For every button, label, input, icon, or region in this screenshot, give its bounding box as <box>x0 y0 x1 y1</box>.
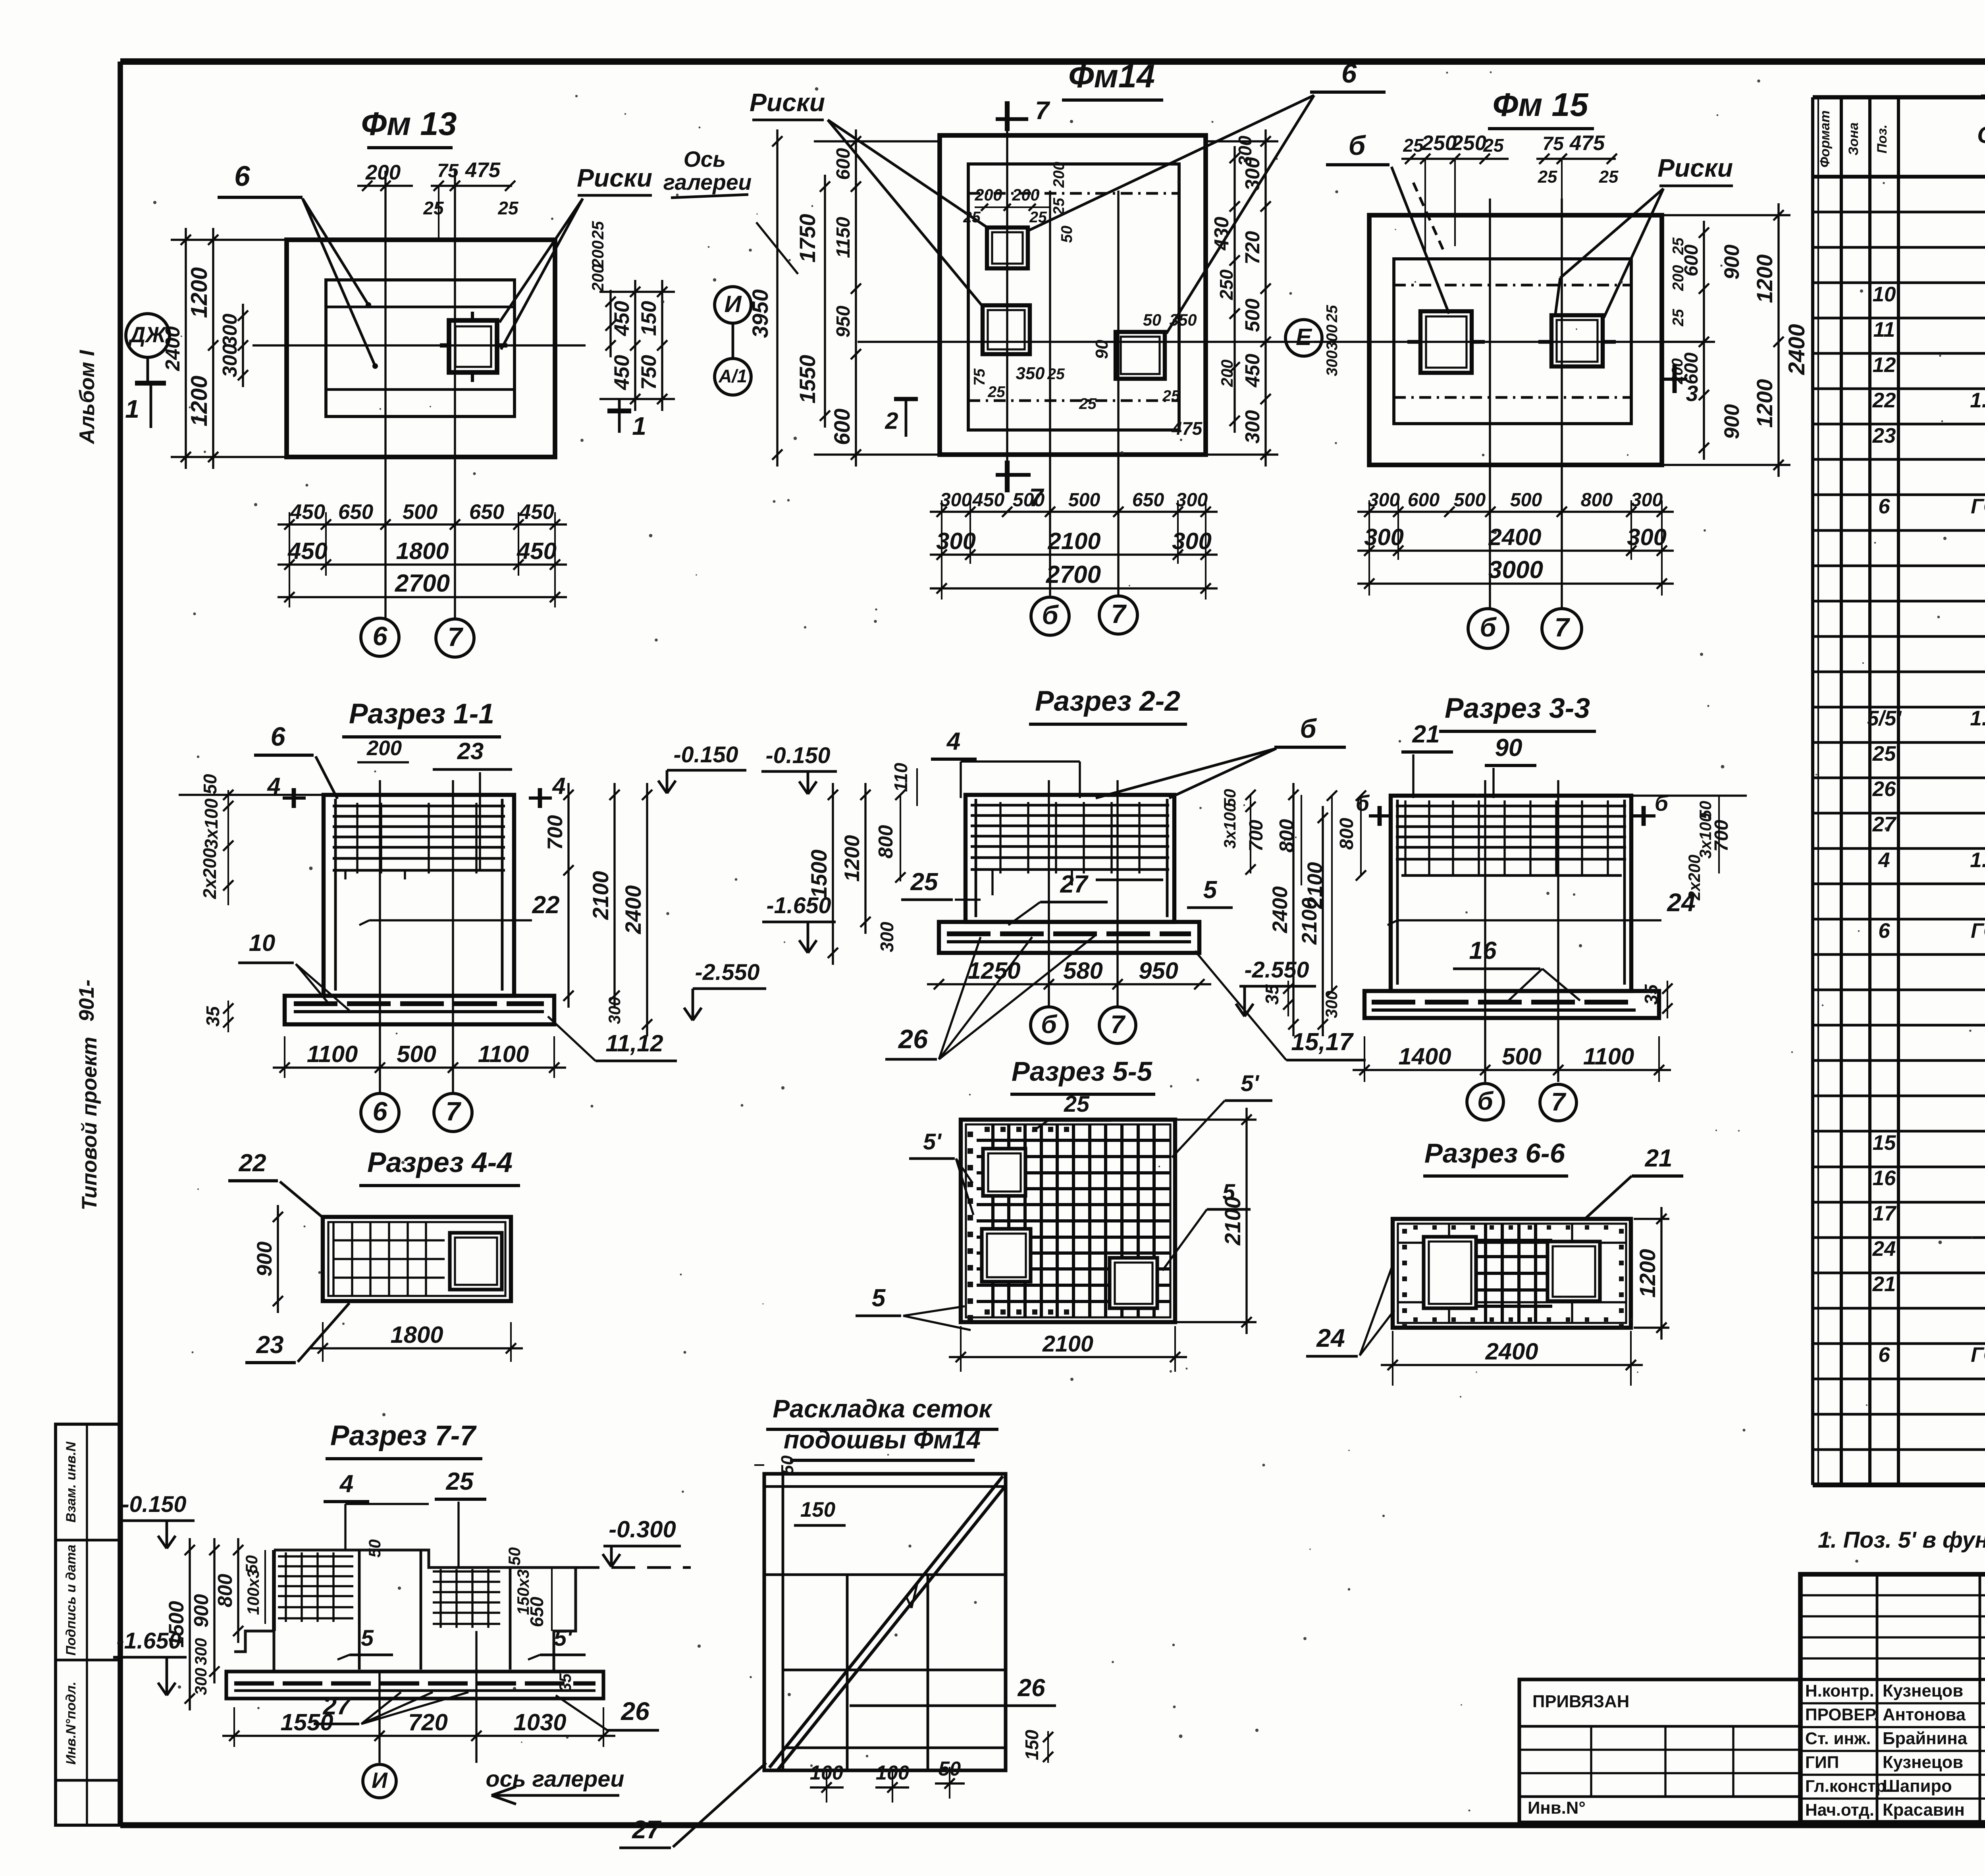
svg-text:ГИП: ГИП <box>1805 1753 1839 1772</box>
svg-text:Зона: Зона <box>1846 122 1861 155</box>
svg-text:25: 25 <box>1324 305 1341 323</box>
svg-text:300: 300 <box>1324 350 1341 376</box>
svg-text:200: 200 <box>1012 186 1039 204</box>
svg-text:900: 900 <box>1720 245 1744 280</box>
svg-text:подошвы Фм14: подошвы Фм14 <box>784 1425 981 1454</box>
svg-text:ДЖ: ДЖ <box>128 322 167 347</box>
svg-text:1500: 1500 <box>807 849 831 898</box>
svg-text:25: 25 <box>423 198 444 218</box>
svg-text:Фм 15: Фм 15 <box>1493 86 1589 123</box>
svg-text:200: 200 <box>1050 162 1068 188</box>
svg-text:1200: 1200 <box>1752 254 1777 303</box>
svg-text:Риски: Риски <box>577 164 652 192</box>
svg-text:Поз.: Поз. <box>1875 124 1890 153</box>
svg-text:500: 500 <box>1241 299 1264 332</box>
svg-text:1550: 1550 <box>795 355 820 403</box>
svg-text:ГОСТ 24379.1-80: ГОСТ 24379.1-80 <box>1971 1343 1985 1367</box>
svg-text:450: 450 <box>610 301 634 336</box>
svg-text:720: 720 <box>408 1709 448 1735</box>
svg-text:800: 800 <box>874 825 897 858</box>
svg-text:4: 4 <box>946 728 961 755</box>
svg-text:5/5': 5/5' <box>1867 707 1902 730</box>
svg-text:2100: 2100 <box>1042 1331 1093 1357</box>
svg-text:700: 700 <box>543 815 567 850</box>
svg-text:1030: 1030 <box>513 1709 566 1735</box>
svg-text:Альбом I: Альбом I <box>75 350 99 445</box>
svg-text:5': 5' <box>923 1129 942 1155</box>
svg-text:16: 16 <box>1873 1166 1896 1190</box>
svg-text:7: 7 <box>1554 613 1570 642</box>
svg-text:700: 700 <box>1711 820 1732 852</box>
svg-text:50: 50 <box>1058 226 1075 243</box>
svg-text:6: 6 <box>1878 495 1890 518</box>
svg-text:6: 6 <box>372 622 387 651</box>
svg-text:300: 300 <box>1324 324 1341 350</box>
svg-text:5: 5 <box>872 1284 886 1312</box>
svg-text:500: 500 <box>1013 489 1045 511</box>
svg-text:ось галереи: ось галереи <box>486 1766 624 1792</box>
svg-text:300: 300 <box>192 1668 210 1695</box>
svg-text:150: 150 <box>1021 1729 1042 1760</box>
svg-text:25: 25 <box>1050 197 1068 216</box>
svg-text:4: 4 <box>552 773 565 799</box>
svg-text:720: 720 <box>1241 231 1264 264</box>
svg-text:И: И <box>372 1768 388 1793</box>
svg-text:7: 7 <box>447 623 463 652</box>
svg-text:Н.контр.: Н.контр. <box>1805 1681 1874 1701</box>
svg-text:10: 10 <box>1873 283 1896 306</box>
svg-text:6: 6 <box>1341 58 1357 89</box>
svg-text:Разрез 6-6: Разрез 6-6 <box>1424 1138 1565 1168</box>
svg-text:б: б <box>1349 130 1366 161</box>
svg-text:475: 475 <box>1172 418 1203 439</box>
svg-text:200: 200 <box>589 240 607 268</box>
svg-text:10: 10 <box>249 929 276 956</box>
svg-text:475: 475 <box>465 158 501 182</box>
svg-text:500: 500 <box>1068 489 1100 511</box>
svg-text:25: 25 <box>1538 167 1557 187</box>
svg-text:900: 900 <box>190 1594 212 1627</box>
svg-text:600: 600 <box>833 148 854 180</box>
svg-text:2x200: 2x200 <box>1685 854 1704 900</box>
svg-text:25: 25 <box>1670 237 1687 255</box>
svg-text:Взам. инв.N: Взам. инв.N <box>64 1441 79 1523</box>
svg-text:450: 450 <box>516 538 557 564</box>
svg-text:11: 11 <box>1873 318 1895 341</box>
svg-text:25: 25 <box>963 209 981 226</box>
svg-text:Фм 13: Фм 13 <box>361 105 457 142</box>
svg-text:4: 4 <box>339 1470 354 1498</box>
svg-text:4: 4 <box>1878 848 1890 872</box>
svg-text:650: 650 <box>338 500 373 524</box>
svg-text:2400: 2400 <box>1485 1338 1538 1365</box>
svg-text:Раскладка сеток: Раскладка сеток <box>773 1394 993 1423</box>
svg-text:7: 7 <box>1551 1087 1567 1116</box>
svg-text:3950: 3950 <box>748 289 773 338</box>
svg-text:25: 25 <box>1064 1091 1090 1117</box>
svg-text:Обозначение: Обозначение <box>1977 121 1985 148</box>
svg-text:б: б <box>1480 613 1497 642</box>
svg-text:26: 26 <box>621 1697 650 1726</box>
svg-text:Разрез 7-7: Разрез 7-7 <box>330 1420 477 1452</box>
svg-text:А/1: А/1 <box>718 366 747 386</box>
svg-text:Антонова: Антонова <box>1883 1705 1966 1724</box>
svg-text:25: 25 <box>910 868 939 896</box>
svg-text:ГОСТ 24379.1-80: ГОСТ 24379.1-80 <box>1971 919 1985 943</box>
svg-text:1200: 1200 <box>1752 379 1777 428</box>
svg-text:1. Поз. 5' в фундаменте Фм 14: 1. Поз. 5' в фундаменте Фм 14 укоротить … <box>1818 1527 1985 1553</box>
svg-text:Разрез 4-4: Разрез 4-4 <box>367 1147 513 1178</box>
svg-text:25: 25 <box>497 198 519 218</box>
svg-text:1.412-1/77 Вып.3: 1.412-1/77 Вып.3 <box>1970 389 1985 412</box>
svg-text:300: 300 <box>1368 489 1400 511</box>
svg-text:Фм14: Фм14 <box>1068 58 1155 94</box>
svg-text:6: 6 <box>372 1097 387 1126</box>
svg-text:26: 26 <box>1017 1674 1045 1702</box>
svg-text:ПРИВЯЗАН: ПРИВЯЗАН <box>1532 1692 1629 1711</box>
svg-text:7: 7 <box>1035 96 1050 125</box>
svg-text:1200: 1200 <box>187 267 212 318</box>
svg-text:1100: 1100 <box>478 1041 529 1067</box>
svg-text:-0.150: -0.150 <box>765 743 830 768</box>
svg-text:б: б <box>1042 601 1059 630</box>
svg-text:12: 12 <box>1873 353 1896 377</box>
svg-text:450: 450 <box>972 489 1005 511</box>
svg-text:2700: 2700 <box>395 570 450 597</box>
svg-text:50: 50 <box>778 1456 797 1475</box>
svg-text:Подпись и дата: Подпись и дата <box>64 1544 79 1656</box>
svg-text:300: 300 <box>1241 410 1264 443</box>
svg-text:1100: 1100 <box>1583 1043 1634 1070</box>
svg-text:1800: 1800 <box>390 1321 443 1348</box>
svg-text:200: 200 <box>365 161 401 184</box>
svg-text:1: 1 <box>125 395 139 423</box>
svg-text:Ст. инж.: Ст. инж. <box>1805 1729 1871 1748</box>
svg-text:16: 16 <box>1469 937 1497 964</box>
svg-text:110: 110 <box>890 763 911 792</box>
svg-text:27: 27 <box>322 1693 351 1720</box>
svg-text:950: 950 <box>833 306 854 338</box>
svg-text:1200: 1200 <box>840 835 864 882</box>
svg-text:7: 7 <box>1111 600 1127 629</box>
svg-text:35: 35 <box>1641 984 1661 1005</box>
svg-text:300: 300 <box>1176 489 1208 511</box>
svg-text:1750: 1750 <box>795 214 820 262</box>
svg-text:800: 800 <box>214 1574 236 1607</box>
svg-text:2: 2 <box>885 407 898 434</box>
svg-text:Разрез 1-1: Разрез 1-1 <box>349 698 494 730</box>
svg-text:1200: 1200 <box>1635 1249 1660 1298</box>
svg-text:2400: 2400 <box>1488 524 1541 550</box>
svg-text:Брайнина: Брайнина <box>1883 1729 1968 1748</box>
svg-text:26: 26 <box>1872 777 1896 801</box>
svg-text:6: 6 <box>270 722 285 752</box>
svg-text:21: 21 <box>1644 1145 1672 1172</box>
svg-text:200: 200 <box>1670 265 1687 291</box>
svg-text:300: 300 <box>1235 135 1255 166</box>
svg-text:1500: 1500 <box>165 1601 188 1648</box>
svg-text:22: 22 <box>532 891 559 919</box>
svg-text:35: 35 <box>202 1006 223 1027</box>
svg-text:450: 450 <box>287 538 328 564</box>
svg-text:5': 5' <box>554 1625 573 1651</box>
svg-text:27: 27 <box>1060 871 1089 898</box>
svg-text:150: 150 <box>637 301 661 336</box>
svg-text:24: 24 <box>1872 1237 1896 1261</box>
svg-text:300: 300 <box>877 922 897 952</box>
svg-text:700: 700 <box>1245 820 1267 852</box>
svg-text:200: 200 <box>589 264 607 292</box>
svg-text:-0.150: -0.150 <box>121 1492 186 1517</box>
svg-text:22: 22 <box>238 1149 266 1177</box>
svg-text:3x100: 3x100 <box>201 798 222 849</box>
svg-text:-0.300: -0.300 <box>609 1516 676 1542</box>
svg-text:25: 25 <box>1162 388 1180 405</box>
svg-text:200: 200 <box>974 186 1002 204</box>
svg-text:27: 27 <box>1872 813 1897 836</box>
svg-text:6: 6 <box>1878 1343 1890 1367</box>
svg-text:7: 7 <box>1110 1010 1126 1039</box>
svg-text:Инв.N°: Инв.N° <box>1528 1798 1586 1818</box>
svg-text:Разрез 5-5: Разрез 5-5 <box>1012 1056 1153 1087</box>
svg-text:90: 90 <box>1092 340 1112 359</box>
svg-text:5: 5 <box>1203 876 1218 904</box>
svg-text:И: И <box>724 291 742 317</box>
svg-text:Разрез 3-3: Разрез 3-3 <box>1445 692 1590 724</box>
svg-text:100x3: 100x3 <box>244 1569 262 1615</box>
svg-text:900: 900 <box>1720 404 1744 439</box>
svg-text:Шапиро: Шапиро <box>1883 1776 1952 1796</box>
svg-text:25: 25 <box>987 384 1006 401</box>
svg-text:35: 35 <box>556 1673 574 1692</box>
svg-text:475: 475 <box>1569 131 1605 155</box>
svg-text:300: 300 <box>605 997 624 1024</box>
svg-text:15: 15 <box>1873 1131 1896 1155</box>
svg-text:500: 500 <box>1502 1043 1542 1070</box>
svg-text:500: 500 <box>1454 489 1486 511</box>
svg-text:450: 450 <box>610 355 634 390</box>
svg-text:7: 7 <box>445 1097 461 1126</box>
svg-text:1400: 1400 <box>1398 1043 1451 1070</box>
svg-text:Гл.констр.: Гл.констр. <box>1805 1777 1891 1796</box>
svg-text:200: 200 <box>1218 359 1236 387</box>
svg-text:2400: 2400 <box>621 885 646 934</box>
svg-text:2400: 2400 <box>1268 886 1292 933</box>
svg-text:2100: 2100 <box>1047 528 1100 554</box>
svg-text:3: 3 <box>1686 381 1698 406</box>
svg-text:-2.550: -2.550 <box>1244 957 1309 983</box>
svg-text:5: 5 <box>1222 1180 1235 1205</box>
svg-text:б: б <box>1477 1087 1494 1115</box>
svg-text:25: 25 <box>1483 135 1504 156</box>
svg-text:ПРОВЕР.: ПРОВЕР. <box>1805 1705 1878 1724</box>
svg-text:2400: 2400 <box>1784 324 1810 375</box>
svg-text:250: 250 <box>1451 131 1486 155</box>
svg-text:23: 23 <box>1872 424 1896 447</box>
svg-text:1: 1 <box>632 412 646 440</box>
svg-text:3x100: 3x100 <box>1221 803 1239 848</box>
svg-text:11,12: 11,12 <box>605 1030 663 1057</box>
svg-text:500: 500 <box>403 500 437 524</box>
svg-text:5: 5 <box>361 1625 374 1651</box>
svg-text:25: 25 <box>1599 167 1619 187</box>
svg-text:1150: 1150 <box>833 217 854 258</box>
svg-text:3000: 3000 <box>1488 556 1543 584</box>
svg-text:50: 50 <box>505 1547 524 1566</box>
svg-text:500: 500 <box>397 1041 436 1067</box>
svg-text:6: 6 <box>1878 919 1890 943</box>
svg-text:450: 450 <box>1241 354 1264 388</box>
svg-text:90: 90 <box>1495 734 1522 762</box>
svg-text:1800: 1800 <box>396 538 449 564</box>
svg-text:900: 900 <box>253 1242 276 1276</box>
svg-text:25: 25 <box>1047 366 1065 383</box>
svg-text:Кузнецов: Кузнецов <box>1883 1753 1963 1772</box>
svg-text:300: 300 <box>218 314 241 347</box>
svg-text:-0.150: -0.150 <box>673 742 738 767</box>
svg-text:27: 27 <box>632 1815 662 1844</box>
svg-text:650: 650 <box>1132 489 1164 511</box>
svg-text:Риски: Риски <box>750 88 825 117</box>
svg-text:23: 23 <box>457 738 484 764</box>
svg-text:21: 21 <box>1412 721 1440 748</box>
svg-text:650: 650 <box>469 500 504 524</box>
svg-text:300: 300 <box>218 344 241 377</box>
svg-text:Инв.N°подл.: Инв.N°подл. <box>64 1681 79 1764</box>
svg-text:25: 25 <box>1670 308 1687 327</box>
svg-text:Разрез 2-2: Разрез 2-2 <box>1035 685 1180 717</box>
svg-text:350: 350 <box>1016 364 1045 383</box>
svg-text:Формат: Формат <box>1817 110 1833 168</box>
svg-text:Нач.отд.: Нач.отд. <box>1805 1801 1874 1820</box>
svg-text:50: 50 <box>366 1539 384 1558</box>
svg-text:800: 800 <box>1336 818 1357 850</box>
svg-text:450: 450 <box>519 500 554 524</box>
svg-text:21: 21 <box>1872 1273 1896 1296</box>
svg-text:600: 600 <box>830 409 854 445</box>
svg-text:-2.550: -2.550 <box>695 960 759 985</box>
svg-text:25: 25 <box>1079 395 1097 413</box>
svg-text:950: 950 <box>1139 957 1178 984</box>
svg-text:2700: 2700 <box>1046 561 1101 588</box>
svg-text:750: 750 <box>637 355 661 390</box>
svg-text:300: 300 <box>192 1638 210 1665</box>
svg-text:50: 50 <box>1143 311 1161 329</box>
svg-text:22: 22 <box>1872 389 1896 412</box>
svg-text:450: 450 <box>290 500 325 524</box>
svg-text:Ось: Ось <box>684 147 726 172</box>
svg-text:25: 25 <box>589 221 607 240</box>
svg-text:1100: 1100 <box>307 1041 358 1067</box>
svg-text:б: б <box>1300 714 1317 744</box>
svg-text:галереи: галереи <box>663 170 752 195</box>
svg-text:50: 50 <box>200 774 220 794</box>
svg-text:500: 500 <box>1510 489 1542 511</box>
svg-text:300: 300 <box>1322 991 1341 1018</box>
svg-text:Риски: Риски <box>1657 154 1733 182</box>
svg-text:24: 24 <box>1316 1324 1345 1352</box>
svg-text:300: 300 <box>1631 489 1663 511</box>
svg-text:Типовой проект: Типовой проект <box>78 1037 101 1210</box>
svg-text:430: 430 <box>1210 217 1233 251</box>
svg-text:б: б <box>1041 1010 1058 1039</box>
svg-text:350: 350 <box>1169 311 1197 329</box>
svg-text:650: 650 <box>526 1596 547 1627</box>
svg-text:580: 580 <box>1063 957 1103 984</box>
svg-text:75: 75 <box>1542 133 1564 154</box>
svg-text:300: 300 <box>940 489 972 511</box>
svg-text:250: 250 <box>1216 269 1237 300</box>
svg-text:6: 6 <box>234 160 251 192</box>
svg-text:1.412-1/77 Вып.3: 1.412-1/77 Вып.3 <box>1970 848 1985 872</box>
svg-text:23: 23 <box>256 1331 283 1359</box>
svg-text:25: 25 <box>1872 742 1896 765</box>
svg-text:5': 5' <box>1241 1071 1260 1096</box>
svg-text:26: 26 <box>898 1025 928 1054</box>
svg-text:Е: Е <box>1296 324 1312 350</box>
svg-text:75: 75 <box>971 368 988 386</box>
svg-text:25: 25 <box>1029 209 1047 226</box>
svg-text:2x200: 2x200 <box>199 848 220 899</box>
svg-text:25: 25 <box>445 1468 474 1495</box>
svg-text:Кузнецов: Кузнецов <box>1883 1681 1963 1701</box>
svg-text:600: 600 <box>1408 489 1440 511</box>
svg-text:17: 17 <box>1873 1202 1897 1225</box>
svg-text:2100: 2100 <box>1303 862 1327 909</box>
svg-text:25: 25 <box>1403 135 1424 156</box>
svg-text:ГОСТ 24379.1-80: ГОСТ 24379.1-80 <box>1971 495 1985 518</box>
svg-text:150: 150 <box>800 1498 835 1521</box>
svg-text:200: 200 <box>366 737 402 760</box>
svg-text:1200: 1200 <box>187 376 212 426</box>
svg-text:800: 800 <box>1581 489 1613 511</box>
svg-text:300: 300 <box>1627 524 1667 550</box>
svg-text:2100: 2100 <box>588 871 613 920</box>
svg-text:Красавин: Красавин <box>1883 1800 1965 1820</box>
svg-text:1.412-1/77 Вып.3: 1.412-1/77 Вып.3 <box>1970 707 1985 730</box>
svg-text:901-: 901- <box>75 979 98 1022</box>
